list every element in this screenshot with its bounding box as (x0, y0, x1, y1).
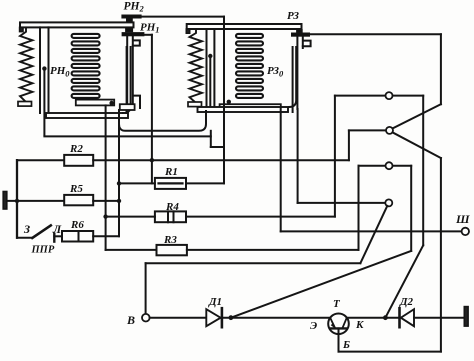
svg-text:Л: Л (52, 222, 62, 236)
diode D2 cathode bar (398, 308, 401, 327)
wire R1 left (119, 182, 155, 184)
wire bus left vertical (16, 160, 18, 238)
wire armature frames link horizontal (44, 135, 210, 137)
wire R4 right long (186, 216, 335, 218)
svg-text:К: К (355, 319, 364, 331)
wire frame link B to P3 yoke (119, 111, 206, 131)
wire vertical PH1 down (151, 35, 153, 184)
wire pillar PH1 foot down (vertical B) (118, 110, 120, 236)
svg-text:Б: Б (342, 339, 350, 351)
wire B net vertical to terminal (145, 263, 147, 314)
resistor R6 internal tick (78, 231, 80, 242)
wire V terminal to D1 (150, 317, 207, 319)
switch PPR blade (32, 225, 51, 238)
svg-text:РЗ: РЗ (287, 10, 299, 22)
contact stud circle 4 (385, 199, 392, 206)
svg-text:R1: R1 (164, 166, 178, 178)
relay PH yoke bottom bar (46, 113, 128, 118)
wire P3 coil bottom down to Sh line (280, 108, 282, 231)
wire collector to D2 (347, 317, 400, 319)
wire R5 right (93, 200, 119, 202)
wire R2 left (17, 159, 64, 161)
relay PH coil bottom lead bar (76, 100, 114, 106)
wire diagonal stud1 net to D2 junction (385, 245, 423, 317)
contact P3 plate (292, 33, 310, 36)
diode D1 cathode bar (221, 308, 224, 327)
resistor R6 (62, 231, 93, 242)
relay PH yoke right side (126, 47, 128, 113)
relay P3 hinge post (double vertical) (206, 29, 208, 107)
svg-text:Э: Э (310, 320, 317, 332)
wire D1 to transistor (222, 317, 330, 319)
wire R4 left (106, 216, 155, 218)
wire R3 right long (187, 249, 359, 251)
contact P3 movable tip (297, 30, 303, 33)
wire vertical R3 to stud3 row (358, 166, 360, 250)
contact P3 support pillar (296, 37, 298, 109)
wire Sh line (281, 230, 462, 232)
relay PH coil PH0 (9 turns) (72, 34, 100, 98)
transistor T collector lead (342, 318, 347, 329)
resistor R4 (155, 211, 186, 222)
relay PH armature bar left end tick (20, 27, 23, 31)
contact PH1 support pillar (126, 37, 128, 104)
relay PH coil inner lead with junction dot (43, 69, 45, 136)
wire stud3 corner down (410, 166, 412, 251)
relay PH armature bar (20, 22, 134, 27)
wire right vertical lower (base net) (440, 158, 442, 352)
transistor T emitter arrow (331, 323, 337, 330)
wire P3 frame corner vertical (210, 131, 212, 147)
relay P3 return spring (190, 29, 203, 103)
wire right vertical upper (P3 contact net) (440, 34, 442, 104)
terminal battery bar (3, 192, 7, 210)
wire D2 to right terminal (414, 317, 464, 319)
contact stud circle 2 (386, 127, 393, 134)
svg-text:Д1: Д1 (208, 296, 222, 308)
junction dot B x R1 (117, 181, 121, 185)
diode D2 triangle (401, 309, 414, 326)
junction dot coil PH bottom (109, 101, 113, 105)
wire bus to switch pivot (17, 237, 32, 239)
relay P3 armature bar left end tick (186, 29, 189, 33)
wire P3 plate to right vertical (310, 33, 441, 35)
resistor R5 (64, 195, 93, 205)
svg-text:R2: R2 (69, 143, 83, 155)
wire coil PH bottom down (vertical A) (105, 105, 107, 250)
wire diagonal stud3 net to D1 junction (231, 251, 411, 318)
wire diagonal stud2 down to base net (393, 132, 441, 158)
relay PH spring anchor foot (18, 102, 32, 107)
resistor R1 (155, 178, 186, 189)
svg-text:R4: R4 (165, 201, 179, 213)
contact PH1 pillar flange (133, 40, 140, 45)
wire R1 right (186, 182, 224, 184)
junction dot PH1/R2 bus (150, 158, 154, 162)
wire vertical H2 to stud2 (348, 130, 350, 160)
terminal V circle (142, 314, 150, 322)
junction dot bus x battery wire (15, 199, 19, 203)
junction dot D2 side (383, 315, 388, 320)
wire B net horizontal (146, 262, 361, 264)
wire R3 left (106, 249, 157, 251)
transistor T base lead down (338, 328, 340, 351)
contact PH1 movable tip (126, 28, 133, 32)
svg-text:R5: R5 (69, 183, 83, 195)
wire diagonal stud2 up to P3 net (393, 104, 441, 128)
svg-text:R6: R6 (70, 219, 84, 231)
switch contact L tick (53, 234, 55, 242)
transistor T base bar (331, 327, 347, 329)
resistor R1 internal bar (159, 182, 183, 184)
svg-text:Ш: Ш (455, 212, 470, 226)
relay P3 armature bar (187, 24, 302, 29)
contact stud circle 1 (386, 92, 393, 99)
relay PH return spring (20, 27, 33, 101)
wire L contact to R6 (54, 235, 62, 237)
wire diagonal stud4 to B net (360, 206, 387, 263)
wire base bottom horizontal (339, 351, 441, 353)
contact PH2 movable tip (127, 19, 133, 22)
relay P3 coil P30 (9 turns) (236, 34, 263, 98)
wire P3 pillar down to contact stud 4 row (297, 109, 299, 203)
wire vertical PH2/R1 right (223, 17, 225, 184)
junction dot A x R4 (103, 214, 107, 218)
relay P3 spring anchor foot (188, 102, 202, 107)
transistor T circle (328, 314, 349, 335)
relay PH hinge post (double vertical) (39, 27, 41, 113)
contact PH2 plate (122, 15, 141, 18)
resistor R4 internal ticks (168, 211, 174, 222)
resistor R3 (157, 245, 187, 255)
svg-text:ППР: ППР (31, 245, 55, 256)
svg-text:З: З (23, 222, 30, 236)
wire frame link to PH2 vertical (211, 146, 224, 148)
wire R6 right (93, 235, 119, 237)
wire stud1 corner down (422, 96, 424, 246)
svg-text:Д2: Д2 (399, 296, 414, 308)
wire PH2 plate to vertical (141, 16, 224, 18)
bracket next to pillar foot (135, 96, 141, 108)
terminal bar right (464, 307, 468, 327)
relay P3 coil inner lead with junction dot (209, 56, 211, 107)
wire contact stud 3 row (359, 165, 412, 167)
junction dot coil P3 bottom (227, 100, 231, 104)
diode D1 triangle (206, 309, 220, 326)
wire contact stud 4 row (298, 202, 386, 204)
transistor T emitter lead (330, 318, 335, 328)
contact stud circle 3 (386, 162, 393, 169)
wire contact stud 2 row (349, 129, 386, 131)
relay P3 yoke right side (292, 47, 294, 112)
junction dot B x R5 (117, 199, 121, 203)
svg-text:В: В (126, 313, 135, 327)
terminal Sh circle (462, 228, 469, 235)
wire contact stud 1 row (335, 95, 423, 97)
contact PH1 pillar foot (120, 104, 135, 110)
relay P3 yoke bottom bar (198, 107, 289, 112)
contact P3 pillar flange (303, 41, 311, 47)
wire PH1 plate to vertical (144, 34, 152, 36)
relay P3 coil bottom lead bar (220, 104, 281, 110)
junction dot D1 cathode (229, 315, 234, 320)
contact PH1 plate (122, 33, 144, 36)
wire battery terminal to R5 (7, 200, 64, 202)
wire H2 R2 right long (93, 159, 349, 161)
svg-text:R3: R3 (163, 234, 177, 246)
wire vertical R4 to stud1 row (334, 96, 336, 217)
resistor R2 (64, 155, 93, 166)
